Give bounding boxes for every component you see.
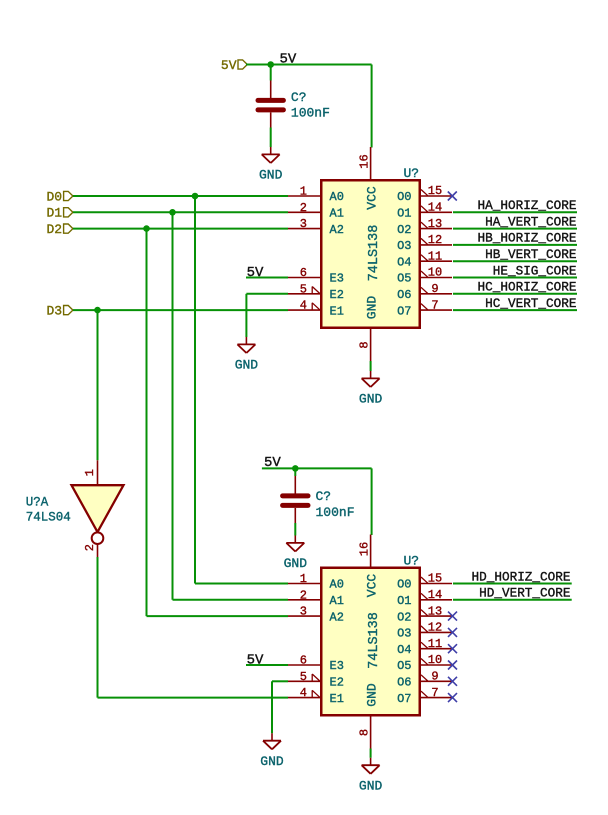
svg-text:15: 15 (428, 572, 442, 586)
svg-text:5V: 5V (247, 265, 264, 281)
wire D0 to U2 A0 (195, 583, 288, 585)
no-connect U2 pin 11 (448, 644, 457, 653)
svg-text:13: 13 (428, 217, 442, 231)
svg-text:O2: O2 (397, 610, 411, 624)
wire D1 to U1 A1 (73, 211, 288, 213)
capacitor C1 (258, 81, 283, 128)
svg-text:16: 16 (357, 542, 371, 556)
svg-text:8: 8 (357, 341, 371, 348)
svg-text:O5: O5 (397, 659, 411, 673)
svg-text:O0: O0 (397, 190, 411, 204)
pin 1 (A0) of U2 (288, 572, 344, 592)
pin 9 (O6) of U1 (397, 282, 452, 302)
wire D2 to U2 A2 (147, 615, 289, 617)
wire 5V rail down to U1 pin 16 (371, 65, 373, 148)
wire D2 to U1 A2 (73, 228, 288, 230)
svg-text:O3: O3 (397, 239, 411, 253)
capacitor C2 (283, 476, 308, 523)
svg-text:D3: D3 (46, 303, 62, 318)
svg-text:5: 5 (300, 282, 307, 296)
svg-text:O4: O4 (397, 643, 411, 657)
IC U1 74LS138 body (321, 180, 420, 328)
wire 5V rail 2 horizontal (262, 467, 372, 469)
svg-text:U?: U? (404, 166, 420, 181)
pin 5 (E2) of U1 (288, 282, 344, 302)
wire U1 O4 to HB_VERT_CORE (453, 260, 577, 262)
pin 10 (O5) of U2 (397, 653, 452, 673)
wire U1 O6 to HC_HORIZ_CORE (453, 293, 577, 295)
pin 1 (A0) of U1 (288, 185, 344, 205)
svg-text:A1: A1 (330, 594, 344, 608)
wire U?A output down (97, 557, 99, 698)
svg-text:3: 3 (300, 217, 307, 231)
wire U1 E2 down to GND (245, 294, 247, 337)
svg-text:A1: A1 (330, 207, 344, 221)
pin 2 (A1) of U1 (288, 201, 344, 221)
wire U1 O3 to HB_HORIZ_CORE (453, 244, 577, 246)
svg-text:16: 16 (357, 154, 371, 168)
svg-text:74LS138: 74LS138 (367, 225, 382, 282)
pin 16 (VCC) of U2 (357, 535, 371, 568)
svg-text:O4: O4 (397, 255, 411, 269)
wire D3 down to U?A input (97, 310, 99, 460)
svg-text:HD_VERT_CORE: HD_VERT_CORE (479, 586, 570, 601)
wire U2 E2 stub (272, 680, 288, 682)
wire U2 O1 to HD_VERT_CORE (453, 599, 572, 601)
global label D2 (46, 222, 72, 237)
wire 5V rail 2 down to U2 pin 16 (371, 468, 373, 535)
svg-text:2: 2 (300, 201, 307, 215)
svg-text:O6: O6 (397, 676, 411, 690)
svg-text:O0: O0 (397, 578, 411, 592)
svg-text:3: 3 (300, 605, 307, 619)
pin 8 (GND) of U1 (357, 329, 371, 362)
svg-text:1: 1 (300, 185, 307, 199)
ground at U1 E2 (235, 337, 259, 373)
svg-text:10: 10 (428, 266, 442, 280)
svg-text:GND: GND (364, 296, 379, 320)
ground at U2 E2 (260, 733, 284, 769)
wire U1 O5 to HE_SIG_CORE (453, 277, 577, 279)
wire U1 O1 to HA_HORIZ_CORE (453, 211, 577, 213)
svg-text:9: 9 (431, 670, 438, 684)
junction D1 branch (169, 209, 176, 216)
pin 3 (A2) of U1 (288, 217, 344, 237)
svg-text:HE_SIG_CORE: HE_SIG_CORE (493, 263, 577, 278)
svg-text:HA_VERT_CORE: HA_VERT_CORE (485, 214, 576, 229)
wire D1 to U2 A1 (173, 599, 289, 601)
wire D3 to U1 E1 (73, 309, 288, 311)
svg-text:O1: O1 (397, 594, 411, 608)
svg-text:A0: A0 (330, 578, 344, 592)
svg-text:100nF: 100nF (316, 505, 355, 520)
svg-text:GND: GND (359, 778, 383, 793)
pin 4 (E1) of U2 (288, 686, 344, 706)
ground below C1 (259, 147, 283, 183)
svg-text:2: 2 (300, 588, 307, 602)
svg-text:A2: A2 (330, 223, 344, 237)
wire 5V to C2 top (294, 468, 296, 476)
svg-text:HC_HORIZ_CORE: HC_HORIZ_CORE (478, 280, 577, 295)
no-connect U2 pin 10 (448, 661, 457, 670)
svg-text:100nF: 100nF (291, 106, 330, 121)
pin 13 (O2) of U1 (397, 217, 452, 237)
svg-text:7: 7 (431, 686, 438, 700)
svg-text:E1: E1 (330, 304, 344, 318)
wire C2 bottom to GND (294, 523, 296, 536)
svg-text:5V: 5V (247, 653, 264, 669)
no-connect U2 pin 7 (448, 693, 457, 702)
svg-text:HD_HORIZ_CORE: HD_HORIZ_CORE (472, 569, 571, 584)
svg-text:9: 9 (431, 282, 438, 296)
pin 8 (GND) of U2 (357, 716, 371, 749)
wire 5V to U2 E3 (246, 664, 288, 666)
wire 5V to U1 E3 (246, 277, 288, 279)
svg-text:GND: GND (284, 556, 308, 571)
pin 11 (O4) of U2 (397, 637, 452, 657)
wire 5V rail horizontal (246, 64, 372, 66)
svg-text:A0: A0 (330, 190, 344, 204)
pin 12 (O3) of U2 (397, 621, 452, 641)
no-connect U1 pin 15 (448, 192, 457, 201)
svg-text:14: 14 (428, 588, 442, 602)
svg-text:C?: C? (316, 489, 332, 504)
junction 5V rail at C1 (267, 61, 274, 68)
svg-text:D2: D2 (46, 222, 62, 237)
wire D2 vertical (146, 229, 148, 616)
svg-text:O5: O5 (397, 272, 411, 286)
svg-text:GND: GND (260, 754, 284, 769)
svg-text:10: 10 (428, 653, 442, 667)
svg-text:14: 14 (428, 201, 442, 215)
pin 13 (O2) of U2 (397, 604, 452, 624)
svg-text:GND: GND (259, 168, 283, 183)
pin 11 (O4) of U1 (397, 249, 452, 269)
wire D0 to U1 A0 (73, 195, 288, 197)
svg-text:U?: U? (404, 553, 420, 568)
svg-text:1: 1 (83, 469, 97, 476)
no-connect U2 pin 9 (448, 677, 457, 686)
ground below U1 (359, 371, 383, 407)
svg-text:E2: E2 (330, 676, 344, 690)
svg-text:6: 6 (300, 266, 307, 280)
pin 5 (E2) of U2 (288, 670, 344, 690)
svg-text:11: 11 (428, 249, 442, 263)
global label D3 (46, 303, 72, 318)
wire 5V to C1 top (270, 65, 272, 81)
pin 2 (A1) of U2 (288, 588, 344, 608)
svg-text:8: 8 (357, 729, 371, 736)
svg-text:1: 1 (300, 572, 307, 586)
junction D2 branch (143, 225, 150, 232)
svg-text:5V: 5V (280, 52, 297, 68)
wire U1 O2 to HA_VERT_CORE (453, 228, 577, 230)
svg-text:4: 4 (300, 299, 307, 313)
svg-text:12: 12 (428, 621, 442, 635)
global label 5V input (221, 58, 247, 73)
svg-text:E1: E1 (330, 692, 344, 706)
pin 6 (E3) of U2 (288, 654, 344, 674)
wire U1 pin8 to GND (370, 361, 372, 371)
pin 4 (E1) of U1 (288, 299, 344, 319)
pin 15 (O0) of U1 (397, 184, 452, 204)
junction 5V rail 2 at C2 (292, 465, 299, 472)
svg-text:4: 4 (300, 686, 307, 700)
svg-text:E3: E3 (330, 272, 344, 286)
pin 14 (O1) of U2 (397, 588, 452, 608)
svg-text:HB_VERT_CORE: HB_VERT_CORE (485, 247, 576, 262)
pin 7 (O7) of U1 (397, 298, 452, 318)
wire U2 O0 to HD_HORIZ_CORE (453, 583, 572, 585)
svg-text:O7: O7 (397, 304, 411, 318)
svg-text:O1: O1 (397, 207, 411, 221)
ground below U2 (359, 758, 383, 794)
wire U2 E2 down to GND (271, 681, 273, 733)
no-connect U2 pin 13 (448, 612, 457, 621)
svg-text:GND: GND (364, 683, 379, 707)
pin 3 (A2) of U2 (288, 605, 344, 625)
svg-text:6: 6 (300, 654, 307, 668)
svg-text:5: 5 (300, 670, 307, 684)
svg-text:C?: C? (291, 90, 307, 105)
wire U1 O7 to HC_VERT_CORE (453, 309, 577, 311)
pin 12 (O3) of U1 (397, 233, 452, 253)
svg-text:E3: E3 (330, 659, 344, 673)
svg-text:VCC: VCC (364, 186, 379, 210)
IC U2 74LS138 body (321, 568, 420, 716)
wire U?A output to U2 E1 (98, 697, 289, 699)
svg-text:74LS138: 74LS138 (367, 612, 382, 669)
svg-text:D0: D0 (46, 189, 62, 204)
svg-text:2: 2 (83, 544, 97, 551)
svg-text:GND: GND (235, 358, 259, 373)
svg-text:7: 7 (431, 298, 438, 312)
svg-text:D1: D1 (46, 206, 62, 221)
svg-text:VCC: VCC (364, 574, 379, 598)
svg-text:11: 11 (428, 637, 442, 651)
svg-text:HB_HORIZ_CORE: HB_HORIZ_CORE (478, 231, 577, 246)
svg-text:U?A: U?A (26, 496, 49, 510)
svg-text:O7: O7 (397, 692, 411, 706)
pin 7 (O7) of U2 (397, 686, 452, 706)
svg-text:E2: E2 (330, 288, 344, 302)
pin 9 (O6) of U2 (397, 670, 452, 690)
wire D1 vertical (172, 212, 174, 600)
svg-text:15: 15 (428, 184, 442, 198)
junction D0 branch (192, 193, 199, 200)
svg-text:HC_VERT_CORE: HC_VERT_CORE (485, 296, 576, 311)
wire C1 bottom to GND (270, 128, 272, 148)
junction D3 branch (94, 307, 101, 314)
wire U2 pin8 to GND (370, 749, 372, 758)
svg-text:O2: O2 (397, 223, 411, 237)
inverter U?A 74LS04 (72, 460, 124, 557)
svg-text:12: 12 (428, 233, 442, 247)
wire D0 vertical (194, 196, 196, 584)
pin 16 (VCC) of U1 (357, 147, 371, 180)
ground below C2 (284, 536, 308, 572)
svg-text:O6: O6 (397, 288, 411, 302)
no-connect U2 pin 12 (448, 628, 457, 637)
global label D0 (46, 189, 72, 204)
pin 6 (E3) of U1 (288, 266, 344, 286)
pin 15 (O0) of U2 (397, 572, 452, 592)
svg-text:74LS04: 74LS04 (26, 511, 71, 525)
svg-text:5V: 5V (221, 58, 237, 73)
pin 10 (O5) of U1 (397, 266, 452, 286)
wire U1 E2 stub (246, 293, 288, 295)
svg-text:HA_HORIZ_CORE: HA_HORIZ_CORE (478, 198, 577, 213)
pin 14 (O1) of U1 (397, 201, 452, 221)
svg-text:GND: GND (359, 392, 383, 407)
svg-text:13: 13 (428, 604, 442, 618)
svg-text:O3: O3 (397, 627, 411, 641)
svg-text:A2: A2 (330, 610, 344, 624)
global label D1 (46, 206, 72, 221)
